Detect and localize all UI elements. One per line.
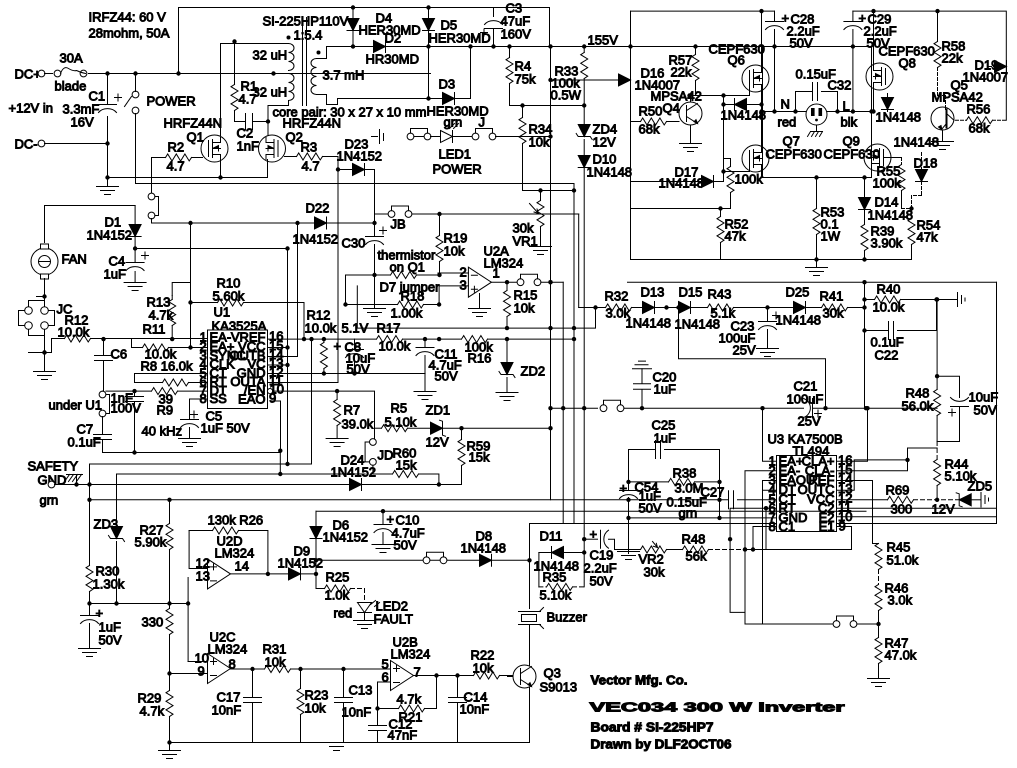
- svg-text:1N4148: 1N4148: [776, 313, 822, 328]
- U3 pin11 C2: [837, 507, 997, 509]
- wire ZD3 bottom left: [116, 542, 118, 604]
- N wire: [763, 111, 806, 113]
- svg-text:50V: 50V: [394, 538, 417, 553]
- svg-text:D2: D2: [385, 31, 402, 46]
- output to D9: [231, 573, 289, 575]
- wire FAN top to D1: [45, 206, 136, 243]
- svg-text:47k: 47k: [725, 229, 746, 244]
- svg-text:POWER: POWER: [433, 162, 482, 177]
- svg-text:D18: D18: [914, 156, 938, 171]
- svg-text:1N4152: 1N4152: [323, 530, 369, 545]
- svg-text:R2: R2: [168, 140, 185, 155]
- svg-text:C13: C13: [349, 683, 373, 698]
- svg-text:3.90k: 3.90k: [871, 236, 903, 251]
- switch J: [472, 129, 496, 140]
- svg-text:SI-225HP110V: SI-225HP110V: [263, 14, 349, 29]
- svg-text:1N4148: 1N4148: [868, 208, 914, 223]
- svg-text:R18: R18: [401, 289, 425, 304]
- wire to ground: [107, 144, 109, 187]
- output U2B: [414, 675, 474, 677]
- svg-text:3: 3: [460, 278, 467, 293]
- svg-text:28mohm, 50A: 28mohm, 50A: [89, 26, 170, 41]
- svg-text:E1: E1: [819, 519, 835, 534]
- switch line y407.7: [551, 407, 598, 409]
- svg-text:51.0k: 51.0k: [887, 553, 919, 568]
- svg-text:Drawn by DLF2OCT06: Drawn by DLF2OCT06: [591, 737, 732, 752]
- svg-text:4.7: 4.7: [167, 159, 185, 174]
- svg-text:0.1uF: 0.1uF: [68, 435, 101, 450]
- svg-text:10k: 10k: [514, 301, 535, 316]
- svg-text:Q1: Q1: [187, 130, 204, 145]
- wire FAN bottom to JC: [37, 279, 45, 303]
- ground rail y259: [631, 259, 912, 261]
- U3 pin1 EA+: [763, 408, 777, 461]
- wire DC-: [45, 143, 108, 145]
- vertical x287 ends: [287, 365, 289, 464]
- switch (jumper): [407, 129, 431, 140]
- switch and D8 on y559.8: [423, 552, 447, 563]
- U3 pin3+4: [763, 481, 777, 625]
- svg-text:DC-: DC-: [15, 137, 38, 152]
- wire Q1 source: [220, 160, 222, 178]
- vertical VCC from D1: [287, 249, 289, 348]
- svg-text:25V: 25V: [733, 343, 756, 358]
- svg-text:50V: 50V: [790, 36, 813, 51]
- svg-text:FAULT: FAULT: [374, 612, 414, 627]
- svg-text:10nF: 10nF: [460, 702, 490, 717]
- svg-text:J: J: [479, 115, 486, 130]
- pin6 wire: [378, 682, 391, 726]
- U3 pin6 RT: [730, 508, 776, 612]
- svg-text:155V: 155V: [588, 33, 619, 48]
- bus verticals mid: [551, 47, 585, 587]
- svg-text:LED1: LED1: [439, 147, 472, 162]
- svg-text:1N4148: 1N4148: [721, 108, 767, 123]
- svg-text:D25: D25: [786, 285, 810, 300]
- wire mid line y=327.6: [357, 286, 595, 328]
- pin13 wire: [187, 578, 189, 662]
- svg-text:S9013: S9013: [540, 680, 578, 695]
- svg-text:15k: 15k: [469, 450, 490, 465]
- svg-text:LM324: LM324: [484, 256, 524, 271]
- GND line y517.4 to U3: [629, 517, 777, 519]
- wire top rail from DC+: [179, 8, 550, 74]
- C54 ground: [626, 516, 630, 520]
- svg-text:1uF: 1uF: [654, 382, 676, 397]
- svg-text:1.00k: 1.00k: [391, 306, 423, 321]
- output wire: [491, 281, 517, 283]
- svg-text:30k: 30k: [644, 565, 665, 580]
- svg-text:47.0k: 47.0k: [885, 648, 917, 663]
- svg-text:Q8: Q8: [899, 56, 916, 71]
- svg-text:R5: R5: [391, 401, 408, 416]
- wire source rail y177: [108, 163, 268, 178]
- svg-text:ZD2: ZD2: [521, 364, 546, 379]
- wire y603: [90, 603, 189, 605]
- svg-text:Q4: Q4: [663, 101, 680, 116]
- svg-text:POWER: POWER: [147, 94, 196, 109]
- svg-text:D11: D11: [540, 529, 563, 544]
- wire pin16 VREF rail to right: [268, 338, 355, 340]
- svg-text:D13: D13: [641, 285, 665, 300]
- svg-text:50V: 50V: [435, 369, 458, 384]
- svg-text:1N4007: 1N4007: [963, 70, 1009, 85]
- U3 pin8 C1: [753, 527, 777, 550]
- svg-text:5.10k: 5.10k: [385, 415, 417, 430]
- right edge vertical: [530, 282, 997, 608]
- svg-text:1N4148: 1N4148: [659, 176, 705, 191]
- svg-text:1N4148: 1N4148: [587, 165, 633, 180]
- svg-text:R38: R38: [673, 466, 697, 481]
- svg-text:32 uH: 32 uH: [253, 48, 288, 63]
- svg-text:12V: 12V: [932, 502, 955, 517]
- svg-text:50V: 50V: [639, 501, 662, 516]
- svg-text:1N4152: 1N4152: [87, 228, 133, 243]
- svg-text:1N4148: 1N4148: [626, 316, 672, 331]
- bottom line right half: [902, 208, 912, 210]
- svg-text:Q3: Q3: [544, 666, 561, 681]
- svg-text:blade: blade: [55, 79, 87, 94]
- svg-text:100k: 100k: [735, 172, 764, 187]
- wire primary bottom to Q2 drain: [268, 101, 289, 136]
- svg-text:Vector Mfg. Co.: Vector Mfg. Co.: [591, 673, 688, 688]
- wire y473.5 line: [117, 473, 366, 475]
- svg-text:7: 7: [414, 665, 421, 680]
- chassis on safety line: [76, 475, 78, 485]
- wire D15 junction down: [679, 308, 826, 409]
- svg-text:10.0k: 10.0k: [305, 321, 337, 336]
- svg-text:R48: R48: [682, 532, 706, 547]
- svg-text:47k: 47k: [917, 230, 938, 245]
- svg-text:red: red: [778, 115, 797, 130]
- long line y499.3 left part: [90, 499, 720, 501]
- wire pin3: [439, 285, 468, 287]
- svg-text:39.0k: 39.0k: [342, 417, 374, 432]
- U3 pin9 E1: [766, 527, 852, 550]
- svg-text:25V: 25V: [798, 414, 821, 429]
- svg-text:1W: 1W: [821, 229, 841, 244]
- chassis stub: [372, 130, 384, 144]
- wire secondary bottom: [317, 95, 338, 105]
- svg-text:1N4152: 1N4152: [337, 149, 383, 164]
- H-bridge return rail y281.7: [628, 281, 997, 283]
- svg-text:14: 14: [235, 559, 249, 574]
- svg-text:10k: 10k: [529, 135, 550, 150]
- wire pin13 VC: [268, 348, 288, 366]
- wire bottom rail: [170, 742, 530, 744]
- svg-text:50V: 50V: [99, 633, 122, 648]
- wire pin12 GND rail: [268, 373, 426, 375]
- svg-text:SAFETY: SAFETY: [28, 459, 79, 474]
- svg-text:VEC034 300 W Inverter: VEC034 300 W Inverter: [590, 700, 845, 715]
- wire secondary top: [317, 47, 338, 59]
- svg-text:LM324: LM324: [391, 647, 431, 662]
- svg-text:1uF: 1uF: [104, 267, 126, 282]
- svg-text:100k: 100k: [873, 176, 902, 191]
- R30 column: [89, 464, 91, 566]
- primary winding: [289, 44, 295, 101]
- svg-text:R9: R9: [157, 403, 174, 418]
- svg-text:22k: 22k: [671, 65, 692, 80]
- svg-text:5.1V: 5.1V: [342, 321, 369, 336]
- svg-text:R41: R41: [820, 289, 844, 304]
- svg-text:1uF: 1uF: [654, 431, 676, 446]
- svg-text:100V: 100V: [111, 401, 142, 416]
- bus left H-bridge: [630, 11, 632, 259]
- svg-text:10.0k: 10.0k: [379, 339, 411, 354]
- svg-text:47nF: 47nF: [388, 728, 418, 743]
- svg-text:R16: R16: [468, 351, 492, 366]
- svg-text:5.10k: 5.10k: [945, 469, 977, 484]
- svg-text:Q6: Q6: [728, 53, 745, 68]
- svg-text:10nF: 10nF: [342, 705, 372, 720]
- svg-text:U1: U1: [214, 305, 231, 320]
- svg-text:56.0k: 56.0k: [902, 399, 934, 414]
- U3 pin15 CLA-: [837, 448, 938, 471]
- svg-text:FAN: FAN: [62, 252, 87, 267]
- wire POWER to y183 rail: [135, 114, 137, 184]
- bottom switch: [745, 623, 833, 625]
- resistor R17 inline on rail: [355, 338, 377, 340]
- verticals x628 and x719: [629, 450, 720, 518]
- U1 left pin labels: [210, 330, 246, 407]
- svg-text:R8 16.0k: R8 16.0k: [141, 359, 194, 374]
- wire 155V rail: [338, 46, 763, 48]
- bottom line left half: [631, 208, 731, 210]
- svg-text:ZD1: ZD1: [426, 403, 451, 418]
- wire pin15 VCC: [268, 347, 288, 349]
- svg-text:R11: R11: [143, 322, 166, 337]
- L wire: [828, 111, 872, 113]
- svg-text:Board # SI-225HP7: Board # SI-225HP7: [591, 720, 714, 735]
- svg-text:330: 330: [142, 615, 164, 630]
- svg-text:Buzzer: Buzzer: [547, 610, 588, 625]
- svg-text:LM324: LM324: [208, 642, 248, 657]
- wire Q2 source: [267, 160, 269, 163]
- box bottom: [762, 177, 872, 179]
- U3 pin16 CLA+: [837, 408, 868, 461]
- svg-text:IRFZ44: 60 V: IRFZ44: 60 V: [89, 10, 167, 25]
- svg-text:1N4152: 1N4152: [331, 465, 377, 480]
- svg-text:4.7k: 4.7k: [140, 704, 165, 719]
- svg-text:5.90k: 5.90k: [135, 535, 167, 550]
- svg-text:red: red: [334, 606, 353, 621]
- svg-text:blk: blk: [841, 115, 858, 130]
- chassis right of R40: [937, 293, 966, 307]
- svg-text:+: +: [334, 339, 342, 354]
- wire primary top to Q1 drain: [221, 44, 289, 136]
- U3 pin2 EA-: [745, 471, 777, 624]
- svg-text:50V: 50V: [974, 403, 997, 418]
- svg-text:12V: 12V: [593, 135, 616, 150]
- svg-text:1:5.4: 1:5.4: [294, 28, 323, 43]
- wire R13 top to D22 line: [172, 283, 190, 296]
- wire y463.5 line: [90, 339, 312, 464]
- svg-text:1nF: 1nF: [237, 139, 259, 154]
- svg-text:32 uH: 32 uH: [253, 85, 288, 100]
- svg-text:1N4152: 1N4152: [293, 232, 339, 247]
- svg-text:10nF: 10nF: [212, 703, 242, 718]
- svg-text:R35: R35: [543, 570, 567, 585]
- svg-text:5.60k: 5.60k: [213, 289, 245, 304]
- wire R3 to OUTA vertical: [337, 157, 339, 170]
- svg-text:1.0k: 1.0k: [325, 588, 350, 603]
- svg-text:SS: SS: [210, 391, 228, 406]
- svg-text:grn: grn: [40, 493, 59, 508]
- jumper below R2: [151, 158, 153, 193]
- svg-text:R17: R17: [377, 321, 401, 336]
- svg-text:EAO: EAO: [238, 392, 265, 407]
- wire D23 down to JB line: [374, 170, 376, 224]
- wire: [45, 73, 431, 75]
- svg-text:C22: C22: [875, 348, 899, 363]
- svg-text:9: 9: [198, 664, 205, 679]
- svg-text:4.7: 4.7: [239, 92, 257, 107]
- U3 pin10 E2: [837, 516, 997, 518]
- svg-text:R50: R50: [639, 104, 663, 119]
- svg-text:D15: D15: [679, 285, 703, 300]
- svg-text:160V: 160V: [501, 27, 532, 42]
- U3 pin13 OUTC: [837, 460, 908, 490]
- svg-text:D22: D22: [306, 201, 330, 216]
- svg-text:grn: grn: [444, 115, 463, 130]
- svg-text:C1: C1: [779, 519, 796, 534]
- wire R4/R33 bottoms: [510, 105, 585, 107]
- svg-text:R3: R3: [301, 140, 318, 155]
- U3 pin14 REF: [837, 481, 879, 544]
- svg-text:50V: 50V: [347, 362, 370, 377]
- svg-text:C6: C6: [111, 347, 128, 362]
- svg-text:R32: R32: [605, 289, 629, 304]
- wire secondary lower line: [338, 98, 429, 100]
- secondary winding: [311, 59, 317, 95]
- output U2C: [231, 668, 265, 670]
- svg-text:JD: JD: [378, 448, 394, 463]
- LED1 diode: [441, 131, 453, 143]
- svg-text:on Q1: on Q1: [390, 260, 425, 275]
- svg-text:HRFZ44N: HRFZ44N: [164, 116, 223, 131]
- wire D1 node to VCC vertical: [135, 248, 287, 250]
- svg-text:12V: 12V: [426, 435, 449, 450]
- svg-text:1.30k: 1.30k: [93, 577, 125, 592]
- ground VR2: [628, 550, 630, 554]
- ground under C4: [124, 283, 146, 291]
- svg-text:3.0k: 3.0k: [888, 593, 913, 608]
- wire rail 5.1V left part: [91, 338, 268, 340]
- svg-text:+12V in: +12V in: [9, 101, 53, 116]
- svg-text:C30: C30: [342, 236, 366, 251]
- svg-text:C32: C32: [828, 78, 852, 93]
- svg-text:75k: 75k: [515, 72, 536, 87]
- wire pin14 OUTB up to D22: [268, 223, 298, 357]
- wire jumper to D22 line: [151, 219, 153, 224]
- svg-text:under U1: under U1: [49, 398, 102, 413]
- svg-text:R40: R40: [877, 282, 901, 297]
- ground: [97, 187, 119, 195]
- svg-text:+: +: [620, 481, 628, 496]
- core: [303, 18, 307, 106]
- svg-text:10k: 10k: [444, 244, 465, 259]
- svg-text:R56: R56: [967, 102, 991, 117]
- svg-text:3.0M: 3.0M: [675, 481, 704, 496]
- wire JC bottom: [29, 336, 45, 353]
- svg-text:10k: 10k: [305, 701, 326, 716]
- svg-text:30A: 30A: [60, 51, 83, 66]
- svg-text:4.7: 4.7: [302, 159, 320, 174]
- outlet ground: [816, 125, 818, 132]
- svg-text:0.5W: 0.5W: [551, 88, 582, 103]
- svg-text:R7: R7: [344, 403, 361, 418]
- svg-text:16V: 16V: [71, 115, 94, 130]
- svg-text:15k: 15k: [396, 458, 417, 473]
- wire pin10 /EN to JD: [267, 389, 272, 394]
- svg-text:3.7 mH: 3.7 mH: [323, 68, 365, 83]
- svg-text:22k: 22k: [942, 51, 963, 66]
- svg-text:1: 1: [493, 266, 500, 281]
- gate vertical: [723, 96, 725, 182]
- svg-text:130k R26: 130k R26: [208, 513, 264, 528]
- ground C30: [374, 275, 376, 309]
- svg-text:+: +: [96, 606, 104, 621]
- box top line y510.7: [316, 510, 866, 512]
- svg-text:R43: R43: [708, 287, 732, 302]
- svg-text:CEPF630: CEPF630: [766, 147, 822, 162]
- wire pin2: [438, 273, 468, 275]
- wire C7/EAO line: [103, 401, 281, 453]
- svg-text:5.10k: 5.10k: [540, 588, 572, 603]
- svg-text:1uF 50V: 1uF 50V: [201, 421, 250, 436]
- svg-text:1N4148: 1N4148: [461, 541, 507, 556]
- wire center tap: [179, 73, 289, 75]
- wire line2: [853, 11, 1006, 120]
- ground op-amp: [479, 294, 481, 309]
- switch after U2A: [517, 274, 541, 285]
- svg-text:N: N: [781, 97, 790, 112]
- wire line1 top: [631, 10, 775, 12]
- svg-text:40 kHz: 40 kHz: [142, 424, 182, 439]
- svg-text:D3: D3: [439, 77, 456, 92]
- svg-text:1N4148: 1N4148: [876, 110, 922, 125]
- svg-text:68k: 68k: [969, 121, 990, 136]
- svg-text:DC+: DC+: [15, 67, 41, 82]
- svg-text:50V: 50V: [590, 574, 613, 589]
- svg-text:R25: R25: [326, 570, 350, 585]
- svg-text:R69: R69: [886, 483, 910, 498]
- svg-text:JB: JB: [391, 217, 406, 232]
- vertical x864 down: [864, 282, 866, 408]
- svg-text:HR30MD: HR30MD: [366, 52, 419, 67]
- Q9 gate to R55: [884, 157, 902, 159]
- svg-text:HRFZ44N: HRFZ44N: [283, 116, 342, 131]
- wire pin11 OUTA up: [268, 157, 339, 383]
- wire rail y183 long: [136, 183, 575, 185]
- line y559.8 and buzzer/Q3: [316, 559, 530, 561]
